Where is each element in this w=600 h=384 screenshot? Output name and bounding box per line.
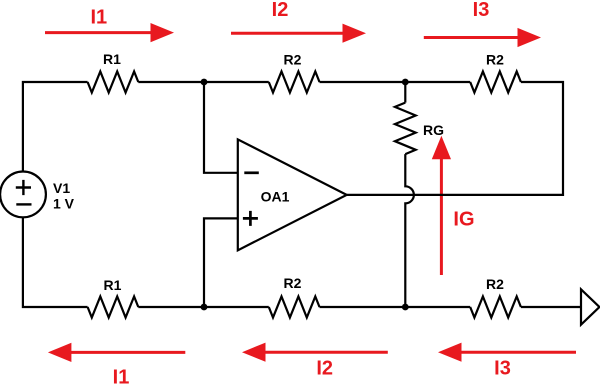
V1 minus sign [16,203,31,205]
wire: non-inverting input down to bottom node C [204,218,238,307]
node C junction dot (bottom left) [201,304,208,311]
current arrow IG (upward) [440,156,443,275]
svg-text:V1: V1 [53,180,70,196]
voltage source V1 circle [0,172,46,218]
svg-text:1 V: 1 V [53,196,75,212]
node D junction dot (bottom right) [402,304,409,311]
wire: bottom R2 to R2 through node D [320,306,471,308]
current arrow I2 (bottom, leftward) [263,351,388,354]
current arrow I1 (bottom, leftward) [68,351,185,354]
svg-text:I2: I2 [316,358,333,380]
wire: bottom-left corner from V1 down and right to R1 [23,217,88,307]
svg-text:IG: IG [453,209,474,231]
wire: R2 to R2 through node B [320,81,471,83]
svg-text:R2: R2 [284,275,302,291]
node B junction dot (top right) [402,79,409,86]
wire: RG down with hop over output wire, to bottom node D [405,154,414,307]
resistor R1 (bottom) [88,297,139,318]
resistor R2 (top right) [470,72,521,93]
svg-text:I3: I3 [473,0,490,21]
resistor R1 (top) [88,72,139,93]
wire: R1 to R2 through node A [138,81,268,83]
current arrow I1 (top, rightward) [45,31,154,34]
wire: bottom R2 to output port [521,306,581,308]
svg-text:RG: RG [423,122,444,138]
wire: node B down to RG [404,82,406,103]
svg-text:I3: I3 [494,358,511,380]
op-amp OA1 triangle [238,139,347,250]
V1 plus sign [16,180,31,195]
svg-text:R2: R2 [486,52,504,68]
current arrow I2 (top, rightward) [231,32,346,35]
svg-text:I1: I1 [113,367,130,384]
resistor R2 (top middle) [269,72,320,93]
output port triangle [581,289,599,324]
wire: bottom R1 to R2 through node C [138,306,268,308]
wire: node A down to inverting input [204,82,238,173]
svg-text:R1: R1 [104,277,122,293]
wire: top-right corner down to op-amp output [347,82,563,195]
current arrow I3 (top, rightward) [424,36,521,39]
op-amp non-inverting input plus sign [243,211,258,226]
op-amp inverting input minus sign [244,171,258,174]
svg-text:R1: R1 [103,51,121,67]
svg-text:OA1: OA1 [261,189,290,205]
svg-text:R2: R2 [486,276,504,292]
svg-text:I1: I1 [90,7,107,29]
node A junction dot (top left) [201,79,208,86]
svg-text:I2: I2 [272,0,289,21]
svg-text:R2: R2 [284,52,302,68]
resistor RG (vertical) [395,103,416,155]
current arrow I3 (bottom, leftward) [459,351,577,354]
resistor R2 (bottom middle) [269,297,320,318]
resistor R2 (bottom right) [470,297,521,318]
wire: top-left corner from V1 up and right to R1 [23,82,88,172]
